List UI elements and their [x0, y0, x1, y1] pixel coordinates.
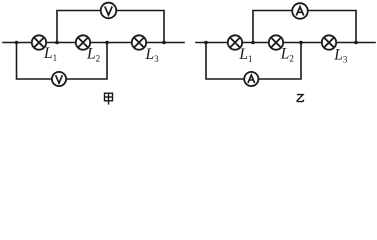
- ammeter A bottom circuit 乙: [244, 72, 258, 86]
- lamp L3 circuit 甲: [132, 35, 146, 49]
- lamp L2 circuit 乙: [269, 35, 283, 49]
- wire main bus circuit 乙: [196, 42, 375, 44]
- lamp L1 circuit 甲: [32, 35, 46, 49]
- lamp L2 circuit 甲: [76, 35, 90, 49]
- svg-text:L2: L2: [280, 45, 294, 63]
- lamp L1 circuit 乙: [228, 35, 242, 49]
- svg-text:L1: L1: [43, 45, 57, 63]
- voltmeter V top circuit 甲: [101, 3, 117, 19]
- ammeter A top circuit 乙: [292, 3, 308, 19]
- junction node dots circuit 乙: [204, 41, 358, 45]
- wire top voltmeter loop 甲: [57, 11, 164, 43]
- wire top ammeter loop 乙: [253, 11, 356, 43]
- svg-text:L1: L1: [238, 46, 252, 64]
- svg-text:L3: L3: [333, 47, 348, 65]
- lamp L3 circuit 乙: [322, 35, 336, 49]
- svg-text:L3: L3: [145, 46, 160, 64]
- svg-text:L2: L2: [86, 46, 100, 64]
- voltmeter V bottom circuit 甲: [52, 72, 66, 86]
- caption 乙 drawn glyph: [297, 95, 304, 102]
- wire bottom ammeter loop 乙: [206, 43, 301, 80]
- junction node dots circuit 甲: [15, 41, 166, 45]
- caption 甲 drawn glyph: [105, 93, 113, 104]
- wire bottom voltmeter loop 甲: [17, 43, 108, 80]
- wire main bus circuit 甲: [3, 42, 184, 44]
